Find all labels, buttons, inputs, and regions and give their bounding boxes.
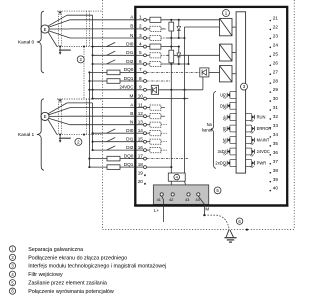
junction on frame (246, 228, 248, 230)
svg-text:N: N (130, 33, 133, 38)
svg-text:36: 36 (273, 150, 279, 155)
LED 2xDQ (215, 160, 236, 167)
svg-text:24VDC: 24VDC (120, 85, 134, 90)
signal name labels left of border (120, 15, 135, 167)
wire row10 M (93, 98, 136, 100)
svg-text:E: E (44, 114, 47, 119)
svg-text:Interfejs modułu technologiczn: Interfejs modułu technologicznego i magi… (28, 264, 166, 270)
wire M row10 (146, 98, 188, 100)
terminal 44 (195, 193, 199, 202)
svg-text:37: 37 (273, 159, 279, 164)
shield top clamp arrow ch1 (59, 99, 62, 103)
equipotential bonding dashed frame (6) (102, 0, 294, 230)
LED RUN (246, 114, 266, 122)
svg-text:DI2: DI2 (126, 59, 134, 64)
wire+switch row6 DI2 (93, 60, 136, 64)
svg-text:DI0: DI0 (126, 128, 134, 133)
svg-text:30: 30 (273, 96, 279, 101)
LED DN (220, 102, 236, 109)
svg-text:M: M (205, 207, 209, 212)
svg-text:19: 19 (138, 170, 144, 175)
load and wire row18 DQ1 (89, 165, 135, 170)
legend item 3 (9, 263, 166, 270)
backplane/technology interface box (236, 12, 246, 173)
svg-text:41: 41 (157, 198, 161, 202)
label 5 circle (214, 187, 221, 194)
wire row9 to junction (159, 89, 203, 91)
svg-text:42: 42 (169, 198, 173, 202)
svg-text:DI0: DI0 (126, 41, 134, 46)
svg-text:33: 33 (273, 123, 279, 128)
wire row2 B to module (70, 28, 135, 30)
svg-text:B: B (223, 126, 226, 131)
shield tie to frame ch1 (83, 134, 85, 136)
svg-text:DQ1: DQ1 (124, 76, 134, 81)
legend item 6 (9, 288, 113, 295)
svg-text:31: 31 (273, 105, 279, 110)
brace Kanal 0 (37, 11, 44, 73)
shield tie to frame ch0 (83, 45, 85, 99)
svg-text:7: 7 (139, 67, 142, 72)
svg-text:M: M (129, 93, 133, 98)
svg-text:10: 10 (138, 93, 144, 98)
svg-text:18: 18 (138, 162, 144, 167)
encoder E1 fan-out wires (48, 103, 93, 135)
encoder supply feed vertical ch0 (92, 15, 94, 99)
wire DI1 row5 to converter (167, 55, 220, 65)
svg-text:32: 32 (273, 114, 279, 119)
svg-text:11: 11 (138, 102, 143, 107)
svg-text:8: 8 (139, 76, 142, 81)
zener diode D1 (177, 20, 181, 38)
svg-text:40: 40 (273, 186, 279, 191)
svg-text:26: 26 (273, 60, 279, 65)
wire DQ0 row7 dashed to driver (146, 71, 199, 73)
svg-text:39: 39 (273, 177, 279, 182)
legend item 2 (9, 254, 127, 261)
svg-text:14: 14 (138, 128, 144, 133)
svg-text:13: 13 (138, 120, 144, 125)
svg-text:20: 20 (138, 179, 144, 184)
wire DQ1 row8 dashed (146, 80, 171, 82)
supply element U3 row9 (151, 85, 158, 94)
svg-text:B: B (130, 111, 133, 116)
wire B row2 stub (161, 28, 166, 30)
wire row7 driver to converter (209, 71, 220, 73)
svg-text:DQ1: DQ1 (124, 162, 134, 167)
svg-text:N: N (130, 120, 133, 125)
cable shield ch0 (dashed sheath) (57, 11, 102, 46)
wire DQ0 row17 dashed stub (146, 158, 188, 160)
wire A row1 to converter (161, 19, 220, 21)
svg-text:23: 23 (273, 34, 279, 39)
svg-text:5: 5 (139, 50, 142, 55)
load supply vertical (88, 71, 90, 168)
LED B (223, 125, 236, 132)
svg-text:21: 21 (273, 16, 279, 21)
load and wire row17 DQ0 (89, 156, 135, 161)
svg-text:ERROR: ERROR (257, 126, 272, 131)
wire DI2 row6 (161, 63, 189, 65)
svg-text:4: 4 (139, 41, 142, 46)
terminal 43 (185, 193, 190, 202)
svg-text:Filtr wejściowy: Filtr wejściowy (28, 272, 63, 278)
terminal pins 21-40 (270, 16, 279, 192)
wire row11 A to module (70, 107, 135, 109)
svg-text:DQ0: DQ0 (124, 153, 134, 158)
legend item 1 (9, 246, 83, 253)
zener diode D2 (177, 47, 181, 64)
wire+switch row16 DI2 (93, 146, 136, 150)
svg-text:34: 34 (273, 132, 279, 137)
LED UP (220, 92, 236, 99)
svg-text:15: 15 (138, 137, 144, 142)
svg-text:43: 43 (185, 198, 189, 202)
brace Na kanal (211, 92, 216, 169)
svg-text:6: 6 (139, 59, 142, 64)
svg-text:25: 25 (273, 51, 279, 56)
svg-text:2: 2 (139, 24, 142, 29)
encoder E1 (41, 112, 49, 120)
svg-text:Podłączenie ekranu do złącza p: Podłączenie ekranu do złącza przedniego (28, 255, 127, 261)
load and wire row8 DQ1 (89, 79, 135, 84)
LED 3xDI (217, 148, 236, 155)
svg-text:RUN: RUN (257, 115, 266, 120)
dashed bond M to earth (204, 215, 229, 229)
svg-text:24: 24 (273, 42, 279, 47)
svg-text:Kanał 1: Kanał 1 (18, 132, 35, 138)
svg-text:L+: L+ (154, 208, 160, 213)
brace Kanal 1 (37, 99, 44, 170)
module outline (thick border) (135, 7, 287, 206)
legend item 4 (9, 271, 63, 278)
svg-text:27: 27 (273, 69, 279, 74)
label 2 circle ch0 (77, 56, 84, 63)
svg-text:DN: DN (220, 103, 226, 108)
legend item 5 (9, 280, 107, 287)
wire row9 24VDC (89, 89, 135, 91)
svg-text:B: B (130, 24, 133, 29)
svg-text:9: 9 (139, 85, 142, 90)
svg-text:1: 1 (139, 15, 142, 20)
wire N row3 to bus (167, 37, 186, 39)
svg-text:38: 38 (273, 168, 279, 173)
wire DI0 row4 (161, 46, 180, 48)
wire row3 N to module (70, 37, 135, 39)
wire+switch row14 DI0 (93, 129, 136, 133)
level converter square S3 (220, 66, 237, 82)
svg-text:A: A (223, 115, 226, 120)
svg-text:kanał: kanał (202, 128, 212, 133)
arrows from filter into power element (170, 181, 188, 191)
svg-text:29: 29 (273, 87, 279, 92)
svg-text:MAINT: MAINT (257, 138, 270, 143)
wire DQ1 row18 to bus (146, 166, 171, 168)
level converter square S1 (220, 18, 237, 35)
wire+switch row15 DI1 (93, 138, 136, 142)
svg-text:3: 3 (139, 33, 142, 38)
terminal pin numbers and contacts 1-20 (136, 15, 146, 185)
wire row12 B to module (70, 115, 135, 117)
svg-text:PWR: PWR (257, 161, 267, 166)
wire+switch row5 DI1 (93, 51, 136, 55)
wire row1 A to module (70, 19, 135, 21)
svg-text:16: 16 (138, 145, 144, 150)
power input filter box with label 4 (168, 173, 185, 181)
svg-text:DI1: DI1 (126, 137, 134, 142)
wire M supply (198, 196, 209, 216)
LED 24VDC (246, 148, 270, 156)
encoder E0 fan-out wires (48, 15, 93, 46)
svg-text:17: 17 (138, 153, 144, 158)
wire+switch row4 DI0 (93, 42, 136, 46)
encoder E0 (41, 25, 49, 33)
svg-text:Na: Na (207, 122, 213, 127)
svg-text:24VDC: 24VDC (257, 149, 270, 154)
LED PWR (246, 160, 267, 168)
shield top clamp arrow ch0 (59, 11, 62, 15)
svg-text:28: 28 (273, 78, 279, 83)
svg-text:DQ0: DQ0 (124, 67, 134, 72)
LED ERROR (246, 125, 272, 133)
svg-text:Połączenie wyrównania potencja: Połączenie wyrównania potencjałów (28, 289, 114, 295)
power supply element (gray) (134, 185, 288, 206)
level converter square S2 (220, 44, 237, 61)
wire 24VDC row9 (146, 89, 151, 91)
svg-text:Separacja galwaniczna: Separacja galwaniczna (28, 247, 83, 253)
input filter boxes rows 1-6,11-16 (146, 17, 166, 153)
wire L+ (154, 196, 163, 222)
svg-text:44: 44 (195, 198, 199, 202)
terminal 41 (157, 193, 164, 202)
svg-text:DI2: DI2 (126, 145, 134, 150)
internal bus 24V with series resistors R1 R2 (169, 20, 174, 173)
svg-text:12: 12 (138, 111, 144, 116)
svg-text:DI1: DI1 (126, 50, 134, 55)
earth ground symbol (224, 230, 236, 242)
label 3 circle (241, 83, 248, 90)
cable shield ch1 (dashed sheath) (57, 99, 102, 135)
svg-text:UP: UP (220, 93, 226, 98)
LED N (223, 137, 236, 144)
svg-text:E: E (44, 27, 47, 32)
label 2 circle ch1 (75, 138, 82, 145)
shield bottom clamp ch1 (2) (59, 134, 71, 143)
internal bus M (185, 27, 220, 173)
load and wire row7 DQ0 (89, 70, 135, 75)
label 1 circle (galvanic separation) (223, 10, 230, 17)
svg-text:Zasilanie przez element zasila: Zasilanie przez element zasilania (28, 281, 107, 287)
wire row13 N to module (70, 124, 135, 126)
LED MAINT (246, 137, 270, 145)
terminal 42 (169, 193, 174, 202)
label Na kanal (202, 122, 213, 132)
label 6 circle (236, 218, 242, 224)
svg-text:35: 35 (273, 141, 279, 146)
svg-text:22: 22 (273, 25, 279, 30)
svg-text:Kanał 0: Kanał 0 (18, 40, 35, 46)
vertical driver supply wire (202, 77, 204, 90)
shield bottom clamp ch0 (2) (59, 45, 71, 54)
encoder supply feed vertical ch1 (92, 103, 94, 151)
LED A (223, 114, 236, 121)
output driver U2 row7 (200, 68, 209, 77)
